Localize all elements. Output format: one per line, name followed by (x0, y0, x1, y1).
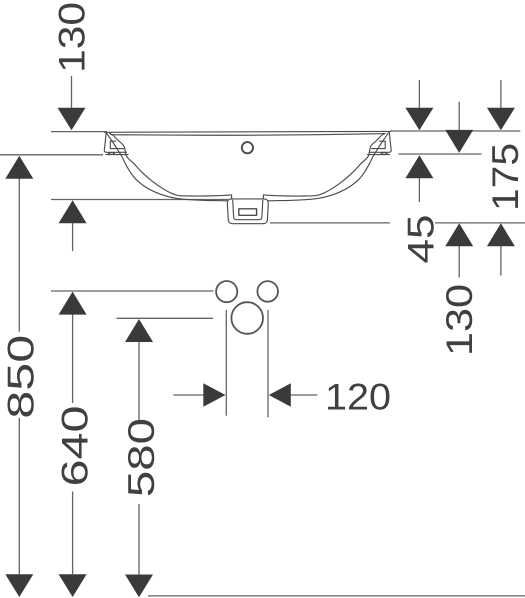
svg-text:130: 130 (439, 284, 480, 356)
svg-text:850: 850 (0, 335, 41, 419)
svg-text:175: 175 (485, 143, 525, 211)
svg-text:120: 120 (325, 376, 391, 417)
svg-text:580: 580 (121, 418, 162, 497)
svg-text:45: 45 (400, 215, 441, 264)
svg-text:130: 130 (52, 2, 93, 73)
svg-text:640: 640 (54, 406, 95, 487)
